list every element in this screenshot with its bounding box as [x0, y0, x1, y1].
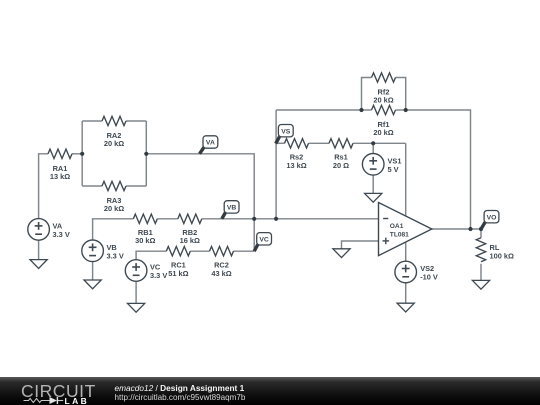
label resistor RB1 value [135, 228, 155, 245]
label resistor RC1 value [168, 261, 188, 278]
label VS1 5 V [388, 157, 402, 174]
wire RB2 to op-amp inverting input [202, 218, 379, 220]
resistor Rs1 [329, 139, 353, 148]
node flag VC [254, 233, 271, 252]
wire RL bottom lead to ground [480, 264, 482, 281]
wire parallel box right vertical [145, 121, 147, 186]
wire VA source bottom stem to ground [38, 240, 40, 259]
svg-text:20 kΩ: 20 kΩ [104, 139, 124, 148]
wire Rs1 to VS1 node and op-amp V+ branch [353, 142, 406, 144]
svg-text:30 kΩ: 30 kΩ [135, 236, 155, 245]
resistor Rf1 [372, 105, 396, 114]
wire VC source to RC1 [136, 251, 166, 260]
svg-text:TL081: TL081 [390, 232, 409, 239]
svg-text:VO: VO [487, 214, 497, 221]
svg-text:VS: VS [281, 128, 291, 135]
resistor Rs2 [285, 139, 309, 148]
svg-text:13 kΩ: 13 kΩ [286, 161, 306, 170]
resistor Rf2 [372, 73, 396, 82]
footer bar [0, 377, 540, 405]
wire VA source top to RA1 [39, 154, 48, 219]
voltage source VS2 [395, 261, 417, 283]
footer url line [115, 393, 246, 402]
svg-text:-10 V: -10 V [420, 273, 438, 282]
wire RC1 to RC2 [190, 250, 209, 252]
junction dot VS1 top [371, 141, 375, 145]
svg-text:20 kΩ: 20 kΩ [373, 96, 393, 105]
svg-text:5 V: 5 V [388, 165, 399, 174]
wire op-amp V+ supply vertical [405, 143, 407, 216]
wire VB source to RB1 [93, 219, 134, 240]
svg-text:100 kΩ: 100 kΩ [490, 252, 514, 261]
junction dot RL top [479, 227, 483, 231]
resistor RB1 [133, 214, 157, 223]
junction dot feedback at output [468, 227, 472, 231]
junction dot VA/VC join on summing line [252, 217, 256, 221]
junction dot box right [144, 152, 148, 156]
label VS2 -10 V [420, 264, 438, 281]
wire VS1 bottom stem to ground [372, 175, 374, 194]
junction dot Rf box right [404, 108, 408, 112]
wire VS vertical bus [275, 110, 277, 219]
node flag VB [222, 201, 239, 219]
wire RL top lead [480, 229, 482, 238]
CircuitLab logo LAB [65, 396, 90, 405]
op-amp OA1 [379, 203, 432, 256]
svg-text:20 Ω: 20 Ω [333, 161, 349, 170]
voltage source VC [125, 260, 147, 282]
junction dot box left [80, 152, 84, 156]
svg-text:20 kΩ: 20 kΩ [104, 204, 124, 213]
label resistor Rs1 value [333, 153, 349, 170]
label resistor RB2 value [180, 228, 200, 245]
ground below VB [84, 280, 101, 289]
wire VC source bottom stem to ground [135, 281, 137, 303]
label resistor RA3 value [104, 196, 124, 213]
wire node VA horizontal and drop to summing line [146, 154, 254, 251]
wire VS2 bottom stem to ground [405, 283, 407, 303]
wire VS bus to Rs2 [276, 142, 284, 144]
svg-text:VB: VB [227, 205, 237, 212]
footer credit line [115, 383, 245, 393]
wire op-amp output [432, 228, 481, 230]
resistor RC1 [166, 247, 190, 256]
wire RA2 top branch leads [82, 120, 102, 122]
label VC 3.3 V [150, 263, 167, 281]
CircuitLab logo resistor-diode glyph [23, 396, 65, 405]
svg-text:OA1: OA1 [390, 223, 404, 230]
resistor RA1 [48, 149, 72, 158]
svg-text:VC: VC [259, 237, 269, 244]
ground below RL [472, 280, 489, 289]
wire VB source bottom stem to ground [92, 262, 94, 280]
wire parallel box left vertical [81, 121, 83, 186]
label OA1 TL081 [390, 223, 409, 239]
node flag VA [200, 136, 218, 154]
label VB 3.3 V [107, 243, 124, 261]
junction dot VS bus on summing line [274, 217, 278, 221]
wire op-amp noninverting input [342, 241, 379, 249]
label resistor RA1 value [50, 164, 70, 181]
label resistor RL value [490, 243, 514, 260]
resistor RL [476, 238, 485, 262]
node flag VO [481, 211, 499, 230]
wire RB1 to RB2 [157, 218, 178, 220]
voltage source VB [82, 240, 104, 262]
ground at op-amp noninverting input [333, 249, 350, 258]
svg-text:13 kΩ: 13 kΩ [50, 172, 70, 181]
wire RC2 to node VC join [234, 250, 255, 252]
voltage source VS1 [362, 154, 384, 176]
resistor RA2 [102, 116, 126, 125]
svg-text:VA: VA [206, 140, 215, 147]
label VA 3.3 V [53, 221, 70, 239]
junction dot Rf box left [359, 108, 363, 112]
svg-text:3.3 V: 3.3 V [150, 271, 167, 280]
ground below VS2 [397, 303, 414, 312]
wire Rf1 leads [362, 109, 372, 111]
label resistor Rf1 value [373, 120, 393, 137]
ground below VC [128, 303, 145, 312]
svg-text:16 kΩ: 16 kΩ [180, 236, 200, 245]
resistor RC2 [210, 247, 234, 256]
svg-text:3.3 V: 3.3 V [107, 251, 124, 260]
CircuitLab logo wordmark [21, 381, 96, 402]
wire RA1 to parallel box left node [72, 153, 82, 155]
wire Rf2 branch [362, 78, 372, 111]
voltage source VA [28, 219, 50, 241]
resistor RB2 [178, 214, 202, 223]
wire feedback right segment and drop to output [406, 110, 471, 229]
svg-text:3.3 V: 3.3 V [53, 230, 70, 239]
svg-text:51 kΩ: 51 kΩ [168, 269, 188, 278]
resistor RA3 [102, 181, 126, 190]
wire VS1 top stem [372, 143, 374, 153]
label resistor Rf2 value [373, 87, 393, 104]
ground below VA [30, 260, 47, 269]
wire Rs2 to Rs1 [309, 142, 330, 144]
ground below VS1 [365, 193, 382, 202]
label resistor RC2 value [211, 261, 231, 278]
label resistor Rs2 value [286, 153, 306, 170]
wire op-amp V- supply stem to VS2 [405, 242, 407, 261]
wire feedback top line left segment [276, 109, 361, 111]
label resistor RA2 value [104, 131, 124, 148]
svg-text:43 kΩ: 43 kΩ [211, 269, 231, 278]
node flag VS [276, 125, 293, 144]
svg-text:20 kΩ: 20 kΩ [373, 128, 393, 137]
wire RA3 bottom branch leads [82, 185, 102, 187]
